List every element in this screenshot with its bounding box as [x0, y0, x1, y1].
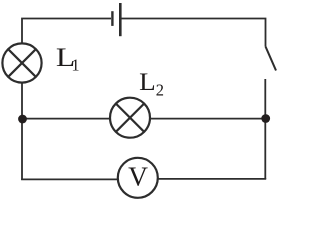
- wire top-left horizontal (corner to battery): [22, 19, 111, 45]
- label L1: [56, 42, 80, 75]
- wire bottom-left (corner to voltmeter): [21, 178, 118, 180]
- wire bottom-right (voltmeter to bottom-right corner): [158, 178, 266, 180]
- wire left vertical lower (L1 to bottom-left corner): [21, 83, 23, 180]
- svg-text:1: 1: [71, 56, 79, 75]
- svg-text:2: 2: [156, 81, 164, 100]
- lamp L2: [110, 98, 150, 138]
- label L2: [139, 69, 164, 100]
- wire middle branch left (left node to lamp L2): [22, 118, 111, 120]
- svg-text:L: L: [139, 69, 156, 96]
- wire top-right horizontal (battery to right corner): [122, 19, 266, 47]
- node junction right: [261, 114, 270, 123]
- battery B1 positive plate (long): [119, 3, 122, 36]
- battery B1 negative plate (short): [111, 11, 113, 26]
- svg-text:V: V: [128, 161, 148, 192]
- wire middle branch right (lamp L2 to right node): [150, 118, 266, 120]
- voltmeter U1: [118, 158, 158, 198]
- lamp L1: [2, 43, 41, 82]
- switch S1 blade (open): [266, 47, 277, 71]
- wire right vertical lower (switch contact down to bottom-right corner): [264, 79, 266, 179]
- node junction left: [18, 115, 27, 124]
